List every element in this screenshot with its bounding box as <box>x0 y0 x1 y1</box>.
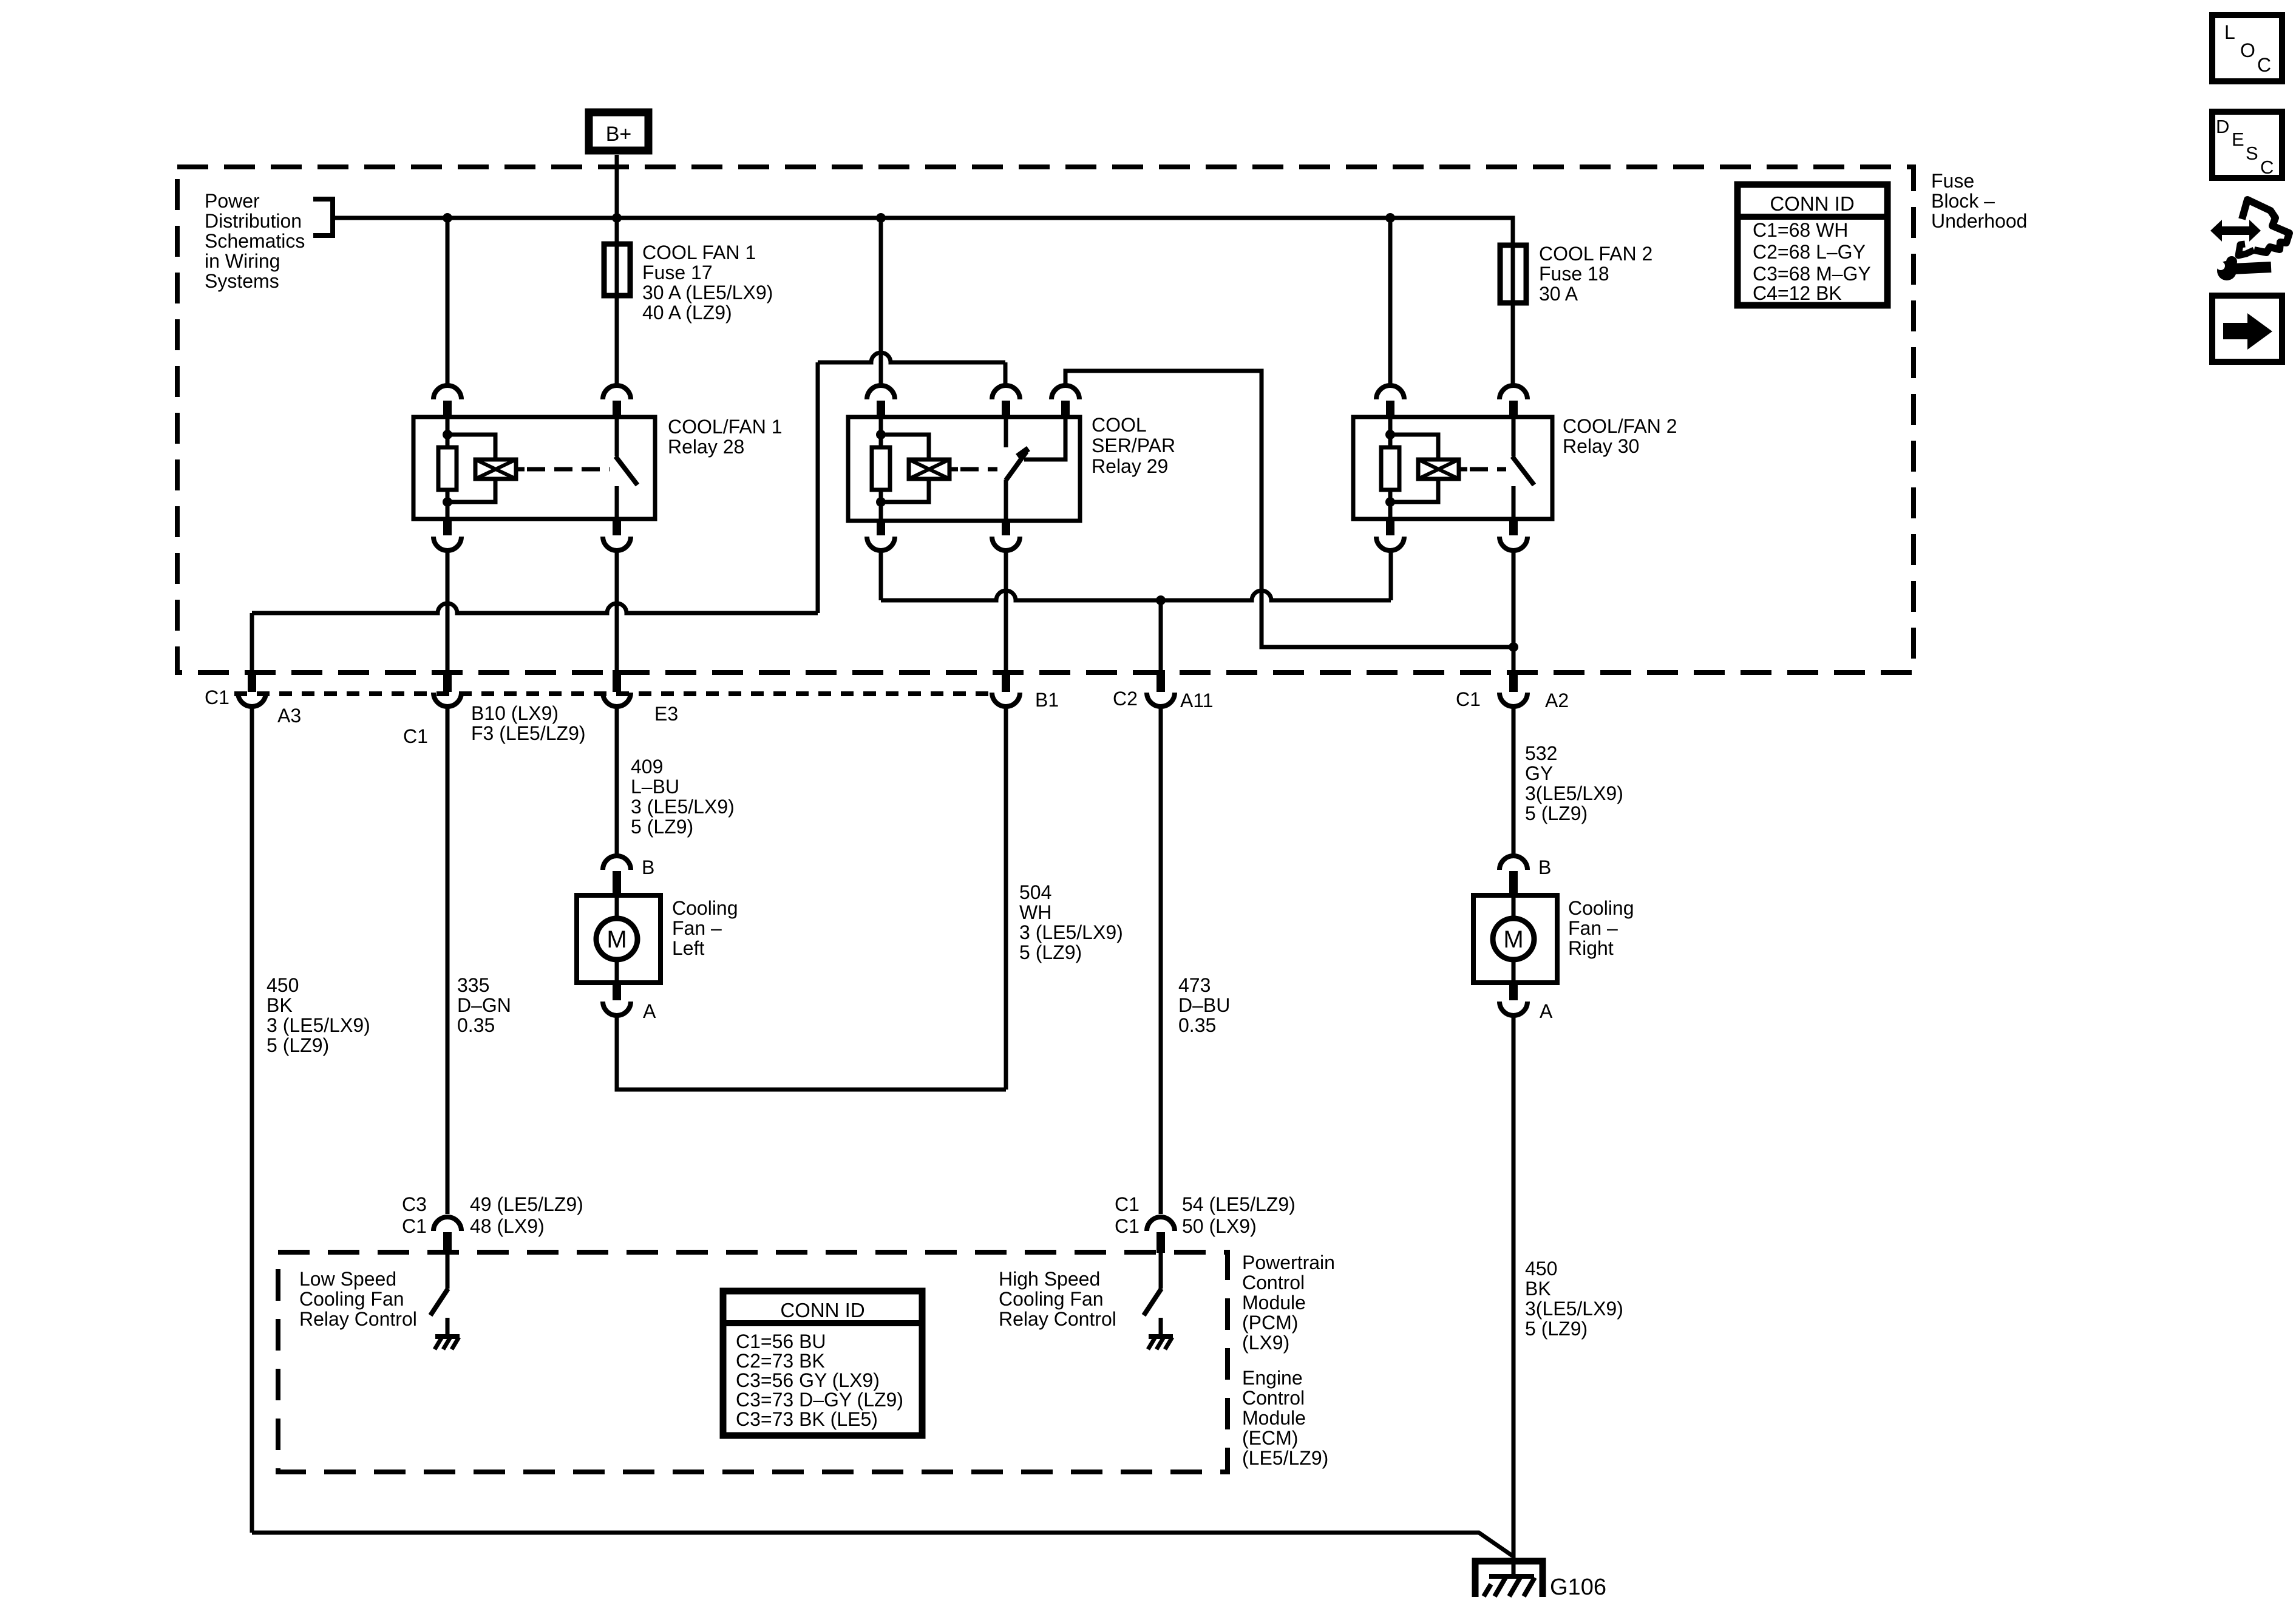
svg-text:Cooling: Cooling <box>672 897 738 919</box>
svg-text:C3=73 BK (LE5): C3=73 BK (LE5) <box>736 1408 878 1430</box>
connector pin relay30 86 (bottom-left) <box>1386 518 1394 535</box>
icon adjust (hand with double arrow and wrench) <box>2210 220 2261 242</box>
wire relay29 NC to ground net (upper horizontal) <box>818 353 1005 362</box>
svg-text:(ECM): (ECM) <box>1242 1427 1298 1449</box>
svg-text:(LE5/LZ9): (LE5/LZ9) <box>1242 1447 1328 1469</box>
switch NO contact branch relay29 <box>1024 417 1065 459</box>
wire 450 BK bottom run to G106 <box>252 1533 1512 1556</box>
svg-text:High Speed: High Speed <box>999 1268 1100 1290</box>
connector pin fan-left B <box>603 856 631 870</box>
wire relay28 coil low to B10 exit <box>446 551 450 670</box>
svg-text:A3: A3 <box>277 705 301 727</box>
inline harness dotted boundary <box>234 691 992 696</box>
ground (high speed driver) <box>1149 1334 1173 1339</box>
svg-text:504: 504 <box>1019 881 1051 903</box>
CONN ID table (fuse block) <box>1737 185 1887 305</box>
svg-text:Fan –: Fan – <box>1568 917 1618 939</box>
connector pin relay29 85 (bottom-left) <box>877 520 885 535</box>
svg-text:Fuse: Fuse <box>1931 170 1974 192</box>
relay K30 COOL/FAN 2 Relay 30 box <box>1353 417 1552 519</box>
resistor (coil suppression) <box>1381 447 1399 490</box>
svg-text:Systems: Systems <box>205 270 279 292</box>
wire coil stub <box>949 467 958 472</box>
wire coil loop <box>881 435 929 459</box>
svg-text:Fan –: Fan – <box>672 917 722 939</box>
relay K28 COOL/FAN 1 Relay 28 box <box>413 417 655 519</box>
svg-text:54 (LE5/LZ9): 54 (LE5/LZ9) <box>1182 1193 1296 1215</box>
connector pin relay29 87 (top-right) <box>1051 385 1079 399</box>
junction node control net / A11 <box>1156 595 1166 605</box>
actuator dashed link <box>960 467 997 472</box>
svg-text:Relay Control: Relay Control <box>299 1308 417 1330</box>
wire 450 BK right down to G106 <box>1512 1017 1516 1578</box>
junction node coil bottom <box>876 497 886 507</box>
svg-text:(PCM): (PCM) <box>1242 1312 1298 1334</box>
relay K29 COOL SER/PAR Relay 29 box <box>848 417 1080 521</box>
connector pin relay29 30 (bottom-middle) <box>1002 520 1010 535</box>
svg-text:Fuse 18: Fuse 18 <box>1539 263 1609 285</box>
svg-text:COOL FAN 2: COOL FAN 2 <box>1539 243 1652 265</box>
wire relay29 NO to fan2 feed <box>1065 371 1512 647</box>
svg-text:C3=73 D–GY (LZ9): C3=73 D–GY (LZ9) <box>736 1389 903 1411</box>
wire coil loop <box>447 435 495 459</box>
svg-text:C1=68 WH: C1=68 WH <box>1753 219 1848 241</box>
svg-text:Engine: Engine <box>1242 1367 1303 1389</box>
junction node bus/fuse17 <box>612 213 622 223</box>
switch high speed cooling fan relay control <box>1159 1253 1163 1289</box>
switch contact (relay) <box>1512 417 1516 456</box>
wire coil loop <box>1390 435 1438 459</box>
svg-text:B10 (LX9): B10 (LX9) <box>471 702 559 724</box>
connector low-speed control C3/C1 <box>433 1217 461 1231</box>
svg-text:Module: Module <box>1242 1407 1306 1429</box>
svg-text:M: M <box>1503 926 1523 953</box>
icon LOC box <box>2212 15 2282 81</box>
svg-text:A2: A2 <box>1545 690 1569 711</box>
svg-text:C2=68 L–GY: C2=68 L–GY <box>1753 241 1866 263</box>
connector exit B1 <box>1002 670 1010 692</box>
svg-text:3(LE5/LX9): 3(LE5/LX9) <box>1525 782 1623 804</box>
svg-text:O: O <box>2240 39 2255 61</box>
connector exit C2/A11 <box>1156 670 1165 692</box>
junction node coil top <box>443 430 452 439</box>
svg-text:BK: BK <box>1525 1278 1551 1300</box>
svg-text:B: B <box>642 856 654 878</box>
svg-text:48 (LX9): 48 (LX9) <box>470 1215 545 1237</box>
wire relay coil column <box>446 417 450 447</box>
motor M cooling fan right <box>1473 895 1557 983</box>
connector pin relay30 30 (top-right) <box>1500 385 1527 399</box>
svg-text:M: M <box>606 926 627 953</box>
junction node bus/relay30 <box>1385 213 1395 223</box>
svg-text:C1=56 BU: C1=56 BU <box>736 1331 826 1352</box>
junction node coil bottom <box>1385 497 1395 507</box>
svg-text:Right: Right <box>1568 937 1614 959</box>
junction node coil top <box>1385 430 1395 439</box>
motor M cooling fan left <box>577 895 661 983</box>
svg-text:F3 (LE5/LZ9): F3 (LE5/LZ9) <box>471 722 586 744</box>
svg-text:B: B <box>1538 856 1551 878</box>
connector pin relay30 87 (bottom-right) <box>1509 518 1518 535</box>
svg-text:450: 450 <box>267 974 299 996</box>
switch NC contact relay29 <box>1004 417 1008 447</box>
svg-text:(LX9): (LX9) <box>1242 1332 1289 1354</box>
svg-text:C1: C1 <box>403 725 428 747</box>
svg-text:Block –: Block – <box>1931 190 1995 212</box>
fuse F17 COOL FAN 1 <box>604 244 630 296</box>
svg-text:B1: B1 <box>1035 689 1059 711</box>
svg-text:A: A <box>643 1000 656 1022</box>
connector pin relay28 30 (top-right) <box>603 385 631 399</box>
svg-text:COOL FAN 1: COOL FAN 1 <box>642 242 756 263</box>
wire control net to A11 exit <box>1159 600 1163 670</box>
svg-text:30 A: 30 A <box>1539 283 1578 305</box>
wire bus to relay 28 coil pin <box>446 218 450 384</box>
svg-text:40 A (LZ9): 40 A (LZ9) <box>642 302 732 324</box>
svg-text:3 (LE5/LX9): 3 (LE5/LX9) <box>267 1014 370 1036</box>
svg-text:Control: Control <box>1242 1272 1305 1293</box>
svg-text:3(LE5/LX9): 3(LE5/LX9) <box>1525 1298 1623 1320</box>
svg-text:409: 409 <box>631 756 663 778</box>
svg-text:3 (LE5/LX9): 3 (LE5/LX9) <box>1019 921 1123 943</box>
svg-text:Cooling Fan: Cooling Fan <box>999 1288 1104 1310</box>
svg-text:Underhood: Underhood <box>1931 210 2027 232</box>
wire coil stub <box>1459 467 1467 472</box>
svg-text:49 (LE5/LZ9): 49 (LE5/LZ9) <box>470 1193 583 1215</box>
svg-text:COOL/FAN 2: COOL/FAN 2 <box>1563 415 1677 437</box>
wire 450 BK left down <box>250 708 254 1533</box>
svg-text:BK: BK <box>267 994 293 1016</box>
connector high-speed control C1/C1 <box>1147 1217 1175 1231</box>
svg-text:E: E <box>2232 129 2244 150</box>
fuse F18 COOL FAN 2 <box>1500 245 1526 303</box>
svg-text:WH: WH <box>1019 901 1051 923</box>
svg-text:C4=12 BK: C4=12 BK <box>1753 282 1842 304</box>
svg-text:Fuse 17: Fuse 17 <box>642 262 713 283</box>
switch low speed cooling fan relay control <box>446 1253 450 1289</box>
svg-text:450: 450 <box>1525 1258 1557 1280</box>
svg-text:Low Speed: Low Speed <box>299 1268 396 1290</box>
wire relay29 coil low down <box>879 551 883 600</box>
B+ battery feed node <box>589 112 648 151</box>
svg-text:5 (LZ9): 5 (LZ9) <box>267 1034 329 1056</box>
wire bus to fuse 17 <box>615 218 619 244</box>
svg-text:5 (LZ9): 5 (LZ9) <box>1525 1318 1588 1340</box>
junction node coil bottom <box>443 497 452 507</box>
connector pin relay28 85 (top-left) <box>433 385 461 399</box>
connector exit C1/A3 <box>248 670 256 692</box>
ground G106 <box>1475 1561 1543 1597</box>
svg-text:C2: C2 <box>1113 688 1138 710</box>
svg-text:473: 473 <box>1178 974 1211 996</box>
wire 532 GY down to fan right <box>1512 708 1516 854</box>
svg-text:B+: B+ <box>606 123 632 146</box>
svg-text:C3=68 M–GY: C3=68 M–GY <box>1753 263 1871 285</box>
svg-text:Cooling: Cooling <box>1568 897 1634 919</box>
fuse block - underhood dashed enclosure <box>177 167 1914 673</box>
svg-text:5 (LZ9): 5 (LZ9) <box>631 816 693 838</box>
svg-text:Module: Module <box>1242 1292 1306 1314</box>
svg-text:C1: C1 <box>205 686 229 708</box>
svg-text:Distribution: Distribution <box>205 210 302 232</box>
svg-text:30 A (LE5/LX9): 30 A (LE5/LX9) <box>642 282 773 303</box>
wire 409 L-BU down to fan left <box>615 708 619 854</box>
wire ground net to A3 exit <box>250 613 254 670</box>
CONN ID table (control module) <box>723 1291 922 1436</box>
svg-text:A11: A11 <box>1180 690 1214 711</box>
connector exit E3 <box>613 670 621 692</box>
svg-text:Cooling Fan: Cooling Fan <box>299 1288 404 1310</box>
svg-text:Relay 28: Relay 28 <box>668 436 744 458</box>
svg-text:C2=73 BK: C2=73 BK <box>736 1350 825 1372</box>
wire relay30 switch out to A2 exit <box>1512 551 1516 670</box>
svg-text:SER/PAR: SER/PAR <box>1092 435 1175 456</box>
wire 335 D-GN down to low speed control <box>446 708 450 1214</box>
switch common relay29 <box>1004 480 1008 521</box>
wire relay29 common to B1 exit <box>1004 551 1008 670</box>
svg-text:S: S <box>2246 143 2258 164</box>
wire B+ down to bus <box>615 155 619 218</box>
ground (low speed driver) <box>435 1334 460 1339</box>
relay coil (box with X) <box>1418 459 1459 479</box>
wire ground net vertical <box>816 362 820 613</box>
connector pin relay29 86 (top-left) <box>867 385 895 399</box>
wire bus to relay 30 coil pin <box>1388 218 1393 384</box>
relay coil (box with X) <box>475 459 516 479</box>
svg-text:Schematics: Schematics <box>205 230 305 252</box>
svg-text:C: C <box>2257 54 2271 76</box>
svg-text:COOL: COOL <box>1092 414 1147 436</box>
svg-text:D–BU: D–BU <box>1178 994 1230 1016</box>
svg-text:C3=56 GY (LX9): C3=56 GY (LX9) <box>736 1369 880 1391</box>
relay coil (box with X) <box>909 459 949 479</box>
bracket to power distribution schematics <box>313 199 333 236</box>
resistor (coil suppression) <box>872 447 890 490</box>
connector exit C1/B10 <box>443 670 452 692</box>
svg-text:C1: C1 <box>402 1215 427 1237</box>
svg-text:Left: Left <box>672 937 704 959</box>
wire bus to relay 29 coil pin <box>879 218 883 384</box>
PCM/ECM dashed enclosure <box>278 1252 1228 1472</box>
svg-text:5 (LZ9): 5 (LZ9) <box>1525 802 1588 824</box>
wire fuse 17 to relay 28 <box>615 296 619 384</box>
connector pin relay29 87A (top-middle) <box>992 385 1020 399</box>
svg-text:0.35: 0.35 <box>1178 1014 1216 1036</box>
svg-text:50 (LX9): 50 (LX9) <box>1182 1215 1257 1237</box>
wire fuse 18 to relay 30 <box>1511 303 1515 384</box>
svg-text:3 (LE5/LX9): 3 (LE5/LX9) <box>631 796 735 818</box>
svg-text:E3: E3 <box>654 703 678 725</box>
actuator dashed link <box>1470 467 1506 472</box>
svg-text:335: 335 <box>457 974 489 996</box>
svg-text:C1: C1 <box>1115 1215 1140 1237</box>
connector pin fan-left A <box>613 983 621 1000</box>
svg-text:L: L <box>2224 21 2235 43</box>
junction node bus/relay28 <box>443 213 452 223</box>
svg-text:Relay 30: Relay 30 <box>1563 435 1639 457</box>
wire coil-control net horizontal <box>881 591 1391 600</box>
svg-text:A: A <box>1540 1000 1553 1022</box>
wire 504 WH fan-left return <box>1004 708 1008 1090</box>
svg-text:in Wiring: in Wiring <box>205 250 280 272</box>
svg-text:GY: GY <box>1525 762 1553 784</box>
wire ground net lower horizontal <box>252 603 818 613</box>
svg-text:Powertrain: Powertrain <box>1242 1252 1335 1273</box>
wire relay coil column <box>879 417 883 447</box>
svg-text:D: D <box>2216 116 2229 137</box>
connector pin relay28 87 (bottom-right) <box>613 518 621 535</box>
icon DESC box <box>2212 112 2282 178</box>
connector pin fan-right A <box>1509 983 1518 1000</box>
wire relay coil column <box>1388 417 1393 447</box>
svg-text:C1: C1 <box>1115 1193 1140 1215</box>
actuator dashed link <box>527 467 610 472</box>
svg-text:Power: Power <box>205 190 260 212</box>
wire B+ bus <box>333 218 1513 245</box>
svg-text:5 (LZ9): 5 (LZ9) <box>1019 941 1082 963</box>
wire 473 D-BU down to high speed control <box>1159 708 1163 1214</box>
junction node fan2 feed <box>1509 642 1518 652</box>
svg-text:Relay Control: Relay Control <box>999 1308 1116 1330</box>
svg-text:Control: Control <box>1242 1387 1305 1409</box>
switch contact (relay) <box>615 417 619 456</box>
connector exit C1/A2 <box>1509 670 1518 692</box>
wire relay28 switch out to E3 exit <box>615 551 619 670</box>
svg-text:Relay 29: Relay 29 <box>1092 455 1168 477</box>
wire coil stub <box>516 467 525 472</box>
svg-text:0.35: 0.35 <box>457 1014 495 1036</box>
svg-text:L–BU: L–BU <box>631 776 679 798</box>
connector pin relay30 85 (top-left) <box>1376 385 1404 399</box>
switch blade relay29 <box>1006 452 1027 480</box>
connector pin relay28 86 (bottom-left) <box>443 518 452 535</box>
junction node coil top <box>876 430 886 439</box>
junction node bus/relay29 <box>876 213 886 223</box>
svg-text:C1: C1 <box>1456 688 1481 710</box>
resistor (coil suppression) <box>438 447 457 490</box>
svg-text:C: C <box>2260 157 2274 178</box>
icon forward arrow box <box>2212 296 2282 362</box>
svg-text:CONN ID: CONN ID <box>780 1299 864 1321</box>
svg-text:CONN ID: CONN ID <box>1770 192 1854 215</box>
connector pin fan-right B <box>1500 856 1527 870</box>
svg-text:532: 532 <box>1525 742 1557 764</box>
svg-text:G106: G106 <box>1550 1575 1606 1600</box>
svg-text:C3: C3 <box>402 1193 427 1215</box>
svg-text:D–GN: D–GN <box>457 994 511 1016</box>
wire control net to relay30 coil low <box>1389 551 1393 600</box>
svg-text:COOL/FAN 1: COOL/FAN 1 <box>668 416 783 438</box>
